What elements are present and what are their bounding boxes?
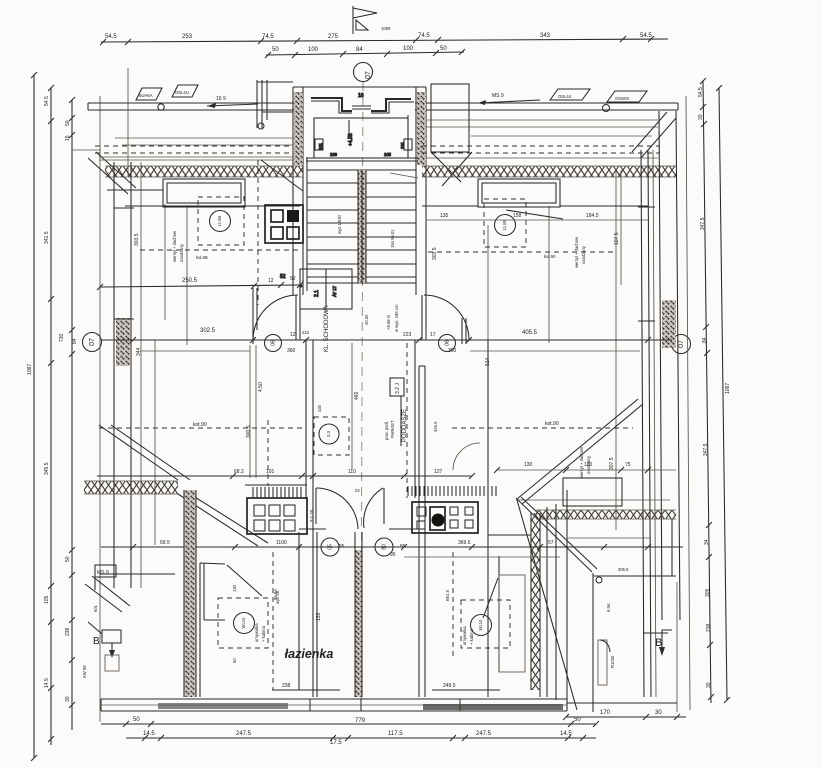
svg-text:AY 17: AY 17: [332, 285, 337, 297]
svg-text:345.5: 345.5: [44, 462, 50, 475]
svg-text:130: 130: [524, 462, 533, 468]
corridor wall stubs at doors: [299, 528, 423, 530]
bottom dimension line 1: [101, 717, 599, 727]
svg-text:1100: 1100: [276, 540, 287, 546]
chimney grid A: [245, 485, 307, 534]
tower top lines: [293, 87, 426, 158]
dim row y476: [97, 469, 475, 479]
dim 238 right: [432, 683, 500, 690]
wall leader diagonal left bath: [227, 565, 262, 596]
svg-text:105: 105: [44, 595, 50, 604]
svg-text:OSWGI: OSWGI: [615, 96, 629, 101]
svg-text:50: 50: [232, 658, 237, 663]
right window bay box: [478, 179, 560, 207]
vent annotation right room: [432, 232, 620, 268]
right dim chain inner: [698, 78, 714, 703]
svg-text:50: 50: [65, 120, 71, 126]
svg-text:84: 84: [72, 338, 78, 344]
svg-text:405.5: 405.5: [522, 330, 538, 336]
left dim chain 2: [44, 85, 54, 745]
dashed partition right: [452, 552, 454, 660]
svg-text:50: 50: [574, 717, 581, 723]
stair tower hatch right: [417, 92, 426, 165]
svg-text:54.5: 54.5: [640, 33, 652, 39]
svg-text:kot.90: kot.90: [545, 421, 559, 427]
svg-text:305: 305: [705, 588, 711, 597]
left roof slope diagonals: [99, 425, 190, 480]
svg-text:105: 105: [384, 152, 392, 157]
svg-text:umywalka: umywalka: [254, 623, 259, 642]
crosshatch band right: [422, 166, 676, 177]
right room dim texts: [426, 210, 648, 220]
svg-text:12: 12: [268, 278, 274, 284]
svg-text:WL10: WL10: [241, 617, 246, 629]
right hip diagonal to corner: [516, 497, 597, 710]
label flag right 1: [550, 89, 590, 100]
svg-text:B61.5: B61.5: [445, 589, 450, 601]
stair walk diagonal: [390, 173, 418, 178]
svg-text:30: 30: [706, 682, 712, 688]
central flue dashed box: [314, 417, 349, 455]
MS9 label bottom left: [95, 565, 116, 590]
chimney grid B: [412, 502, 478, 533]
svg-text:30: 30: [698, 114, 704, 120]
svg-text:303.5: 303.5: [432, 247, 438, 260]
svg-text:14.5: 14.5: [560, 731, 572, 737]
PODDASZE labels: [384, 378, 408, 446]
svg-text:*: *: [300, 285, 302, 291]
corner circle marker: [596, 577, 602, 583]
svg-text:341.5: 341.5: [44, 231, 50, 244]
svg-text:02: 02: [355, 488, 360, 493]
bathroom walls verticals: [299, 340, 499, 697]
svg-text:343: 343: [540, 33, 551, 39]
svg-text:300.5: 300.5: [246, 425, 252, 438]
top dashed eave lines left: [95, 146, 293, 153]
svg-text:54.5: 54.5: [44, 96, 50, 106]
svg-text:MS 9: MS 9: [492, 93, 504, 99]
stair treads: [307, 170, 416, 283]
axis circle 07 top: [354, 63, 373, 82]
bottom-right roof diagonals: [600, 633, 668, 652]
svg-text:158: 158: [513, 213, 522, 219]
svg-text:łazienka: łazienka: [285, 647, 334, 661]
stair rot labels: [337, 214, 395, 248]
crosshatch band left: [105, 166, 303, 177]
right crosshatch band: [516, 500, 676, 519]
svg-text:B5: B5: [339, 543, 345, 548]
svg-text:779: 779: [355, 718, 366, 724]
svg-text:50: 50: [65, 556, 71, 562]
corridor circle 05: [321, 538, 339, 556]
svg-text:54.5: 54.5: [105, 34, 117, 40]
svg-text:238: 238: [706, 623, 712, 632]
eave solid lines: [72, 68, 658, 176]
svg-text:R1030: R1030: [610, 655, 615, 668]
svg-text:osadzany: osadzany: [581, 245, 586, 264]
dim row right 130/75: [494, 462, 676, 473]
right chest box: [563, 478, 622, 506]
bathroom horizontals: [404, 556, 560, 558]
svg-text:302.5: 302.5: [200, 328, 216, 334]
svg-text:KL. SCHODOWA: KL. SCHODOWA: [324, 306, 330, 352]
svg-text:107.5: 107.5: [614, 232, 620, 245]
svg-text:11 B5: 11 B5: [217, 215, 222, 226]
svg-text:5UH6A: 5UH6A: [139, 93, 153, 98]
svg-text:pow. podł.: pow. podł.: [384, 421, 389, 440]
svg-text:osadzany: osadzany: [179, 243, 184, 262]
corridor door arc right: [364, 488, 384, 528]
svg-text:135: 135: [440, 213, 449, 219]
svg-text:kot.90: kot.90: [193, 422, 207, 428]
svg-text:69.5: 69.5: [160, 540, 170, 546]
svg-text:w wys. 186 cm: w wys. 186 cm: [394, 304, 399, 332]
chimney box upper-left: [265, 205, 303, 243]
top wall right: [415, 103, 678, 110]
left crosshatch band 2: [84, 481, 178, 494]
tower left side strips: [257, 80, 293, 129]
axis circle 07 right: [672, 335, 691, 354]
svg-text:133: 133: [316, 612, 322, 621]
svg-text:+8.58 m: +8.58 m: [386, 314, 391, 330]
shower rect right bath: [499, 575, 525, 672]
corridor rot annotations: [364, 304, 399, 332]
svg-text:kot.90: kot.90: [544, 254, 556, 259]
kot.80 dashed level line right: [452, 421, 633, 428]
top-left corner hip diagonals: [88, 152, 136, 194]
svg-text:84: 84: [702, 337, 708, 343]
bathroom right fixture: [445, 578, 510, 648]
svg-text:+ kabina: + kabina: [469, 628, 474, 645]
svg-text:170: 170: [600, 710, 611, 716]
stair tower verticals left: [293, 87, 307, 295]
svg-text:305.5: 305.5: [618, 567, 629, 572]
svg-text:347.5: 347.5: [703, 443, 709, 456]
svg-text:52: 52: [280, 274, 286, 280]
chimney axis extension: [267, 420, 269, 486]
hip diagonal near tower left: [261, 160, 303, 191]
stair tower verticals right: [416, 87, 426, 295]
svg-text:101: 101: [266, 469, 275, 475]
svg-text:247.5: 247.5: [236, 731, 252, 737]
svg-text:238: 238: [65, 627, 71, 636]
stair central rail: [358, 170, 366, 283]
dashed partition left: [272, 552, 274, 690]
left room dim 250.5: [97, 276, 304, 290]
left hatched wall strip: [184, 490, 196, 697]
door left label circle 06: [265, 335, 282, 352]
svg-text:275: 275: [328, 34, 339, 40]
svg-text:1087: 1087: [27, 364, 33, 375]
right outer wall: [659, 111, 680, 620]
svg-text:430: 430: [317, 404, 322, 412]
leader arrow right MS9: [478, 93, 540, 105]
corridor door arc left: [316, 488, 358, 529]
svg-text:460: 460: [354, 391, 360, 400]
svg-text:B: B: [93, 636, 100, 647]
svg-text:86.9A: 86.9A: [273, 589, 278, 600]
svg-text:54.5: 54.5: [698, 87, 704, 97]
svg-text:14.5: 14.5: [44, 678, 50, 688]
left wall window block: [116, 318, 130, 366]
chimney axis dashed: [257, 160, 259, 305]
svg-text:07: 07: [365, 71, 372, 79]
svg-text:345.5: 345.5: [433, 421, 438, 432]
kot.90 dashed level line left: [99, 422, 302, 428]
svg-text:06: 06: [444, 340, 450, 346]
door right leaf and arc: [422, 295, 469, 344]
svg-text:umywalka: umywalka: [462, 626, 467, 645]
svg-text:184.5: 184.5: [586, 213, 599, 219]
svg-text:193: 193: [330, 152, 338, 157]
svg-text:07: 07: [89, 338, 96, 346]
right dim chain outer: [716, 85, 731, 703]
svg-text:253: 253: [182, 34, 193, 40]
svg-text:05: 05: [327, 544, 333, 550]
svg-text:250.5: 250.5: [182, 278, 198, 284]
top-right corner hip diagonals: [632, 112, 676, 158]
svg-text:57: 57: [548, 540, 554, 546]
svg-text:101: 101: [318, 142, 323, 150]
svg-text:100: 100: [308, 47, 319, 53]
top dashed eave lines right: [422, 146, 660, 153]
small corner arc: [453, 443, 480, 470]
svg-text:B5: B5: [400, 543, 406, 548]
svg-text:MS 9: MS 9: [97, 570, 109, 576]
leader arrow left MS9: [158, 96, 258, 110]
tick comb left chimney: [253, 487, 301, 497]
left corner roof diagonals: [85, 574, 175, 612]
svg-text:130: 130: [232, 584, 237, 592]
svg-text:wentyl + dachow: wentyl + dachow: [172, 230, 177, 262]
left outer wall: [114, 162, 131, 588]
svg-text:50: 50: [272, 47, 279, 53]
left roof slope diagonals lower: [178, 494, 268, 546]
svg-text:223: 223: [302, 330, 310, 335]
svg-text:30: 30: [65, 696, 71, 702]
svg-text:0.3: 0.3: [326, 430, 331, 436]
svg-text:KW 99: KW 99: [82, 665, 87, 678]
svg-text:307.5: 307.5: [609, 457, 615, 470]
svg-text:kol.9B: kol.9B: [196, 255, 208, 260]
svg-text:PARKIET: PARKIET: [390, 420, 395, 438]
svg-text:34: 34: [704, 539, 710, 545]
svg-text:101: 101: [400, 141, 405, 149]
svg-text:OSL4U: OSL4U: [175, 90, 189, 95]
closet box right of tower: [431, 84, 469, 182]
svg-text:117.5: 117.5: [388, 731, 403, 737]
ceiling dash line right room: [428, 251, 617, 253]
svg-text:12: 12: [290, 332, 296, 338]
svg-text:223: 223: [403, 332, 412, 338]
svg-text:601: 601: [93, 604, 98, 612]
svg-text:WL10: WL10: [478, 619, 483, 631]
label flag left 2: [172, 85, 198, 97]
svg-text:80: 80: [381, 544, 387, 550]
door jamb extension lines: [155, 340, 256, 545]
svg-text:1089: 1089: [381, 26, 391, 31]
right hatched wall strip: [531, 513, 540, 697]
svg-text:07: 07: [678, 340, 685, 348]
svg-text:06: 06: [270, 340, 276, 346]
svg-text:84: 84: [356, 47, 363, 53]
rot texts right bottom: [606, 603, 615, 668]
svg-text:3.2 J: 3.2 J: [395, 383, 401, 394]
svg-text:344: 344: [136, 347, 142, 356]
left dim chain outer: [27, 72, 37, 761]
right wall layer verticals: [547, 490, 676, 712]
svg-text:30: 30: [655, 710, 662, 716]
central dashed axis: [361, 82, 363, 700]
ceiling dash line left room: [140, 249, 300, 251]
vent labels lower right room: [579, 446, 615, 478]
hip diagonal near tower right: [442, 152, 472, 186]
svg-text:17.5: 17.5: [330, 740, 342, 746]
section marker A top: [353, 6, 391, 34]
svg-text:*: *: [302, 280, 304, 286]
svg-text:249.5: 249.5: [443, 683, 456, 689]
svg-text:194 96.01: 194 96.01: [390, 229, 395, 248]
stair tower hatch left: [294, 92, 303, 165]
right inner wall lines: [638, 150, 655, 697]
svg-text:247.5: 247.5: [476, 731, 492, 737]
left room dashed vent rect: [198, 197, 244, 245]
svg-text:6.5K: 6.5K: [606, 603, 611, 612]
right room dashed vent rect: [484, 199, 526, 247]
top wall left: [88, 103, 301, 110]
vent circle right room: [495, 215, 516, 236]
top dimension line 2: [265, 46, 465, 58]
axis circle 07 left: [83, 333, 102, 352]
svg-text:303.5: 303.5: [134, 233, 140, 246]
landing box below stairs: [280, 269, 352, 309]
svg-text:50: 50: [440, 46, 447, 52]
door right label circle 06: [439, 335, 456, 352]
vent annotation texts left room: [134, 230, 208, 262]
right roof slope diagonals: [517, 399, 643, 504]
extra interior verticals right room: [141, 150, 656, 697]
svg-text:730: 730: [59, 333, 65, 342]
section marker B right: [655, 630, 672, 656]
svg-text:OSL44: OSL44: [558, 94, 572, 99]
bathroom left fixture: [218, 589, 280, 663]
right room top wall lines: [422, 205, 648, 207]
door jamb walls: [306, 340, 415, 498]
svg-text:16 9: 16 9: [216, 96, 226, 102]
svg-text:11 B5: 11 B5: [502, 219, 507, 230]
right wall window block: [662, 300, 676, 348]
svg-text:16: 16: [358, 93, 364, 99]
bottom dimension line 2: [126, 731, 596, 746]
vent circle left room: [210, 211, 231, 232]
svg-text:100: 100: [403, 46, 414, 52]
svg-text:1087: 1087: [725, 383, 731, 394]
svg-text:74.5: 74.5: [418, 33, 430, 39]
left bathroom wall: [200, 563, 225, 697]
svg-text:347.5: 347.5: [700, 217, 706, 230]
svg-text:74.5: 74.5: [262, 34, 274, 40]
tower inner box: [306, 93, 418, 161]
svg-text:wys 18/30: wys 18/30: [337, 214, 342, 234]
far right hatched strip: [598, 640, 607, 685]
svg-text:2.1: 2.1: [314, 290, 320, 297]
label flag left 1: [136, 88, 162, 100]
left window bay box: [163, 179, 245, 207]
svg-text:127: 127: [434, 469, 443, 475]
svg-text:40,50: 40,50: [364, 314, 369, 325]
svg-text:75: 75: [625, 462, 631, 468]
svg-text:+ kabina: + kabina: [261, 625, 266, 642]
bottom dimension line 170/30: [563, 710, 686, 720]
corridor circle 80: [375, 538, 393, 556]
left dim chain 3: [59, 97, 78, 730]
svg-text:4.50: 4.50: [258, 382, 264, 392]
svg-text:14.5: 14.5: [143, 731, 155, 737]
left room top wall lines: [107, 190, 300, 319]
section marker B left: [82, 604, 121, 678]
tick comb right chimney: [408, 486, 496, 496]
svg-text:50: 50: [133, 717, 140, 723]
inner frame verticals: [99, 96, 101, 722]
svg-text:120: 120: [584, 462, 593, 468]
svg-text:369.5: 369.5: [458, 540, 471, 546]
svg-text:17: 17: [430, 332, 436, 338]
top dimension line 1: [100, 33, 668, 45]
svg-text:15: 15: [65, 135, 71, 141]
svg-text:52: 52: [290, 276, 296, 282]
dim 238 left: [272, 683, 340, 690]
svg-text:68.2: 68.2: [234, 469, 244, 475]
svg-text:360: 360: [287, 348, 296, 354]
label flag right 2: [603, 91, 648, 112]
door left leaf and arc: [253, 288, 300, 344]
central wall strip: [355, 532, 362, 697]
svg-text:+4.58: +4.58: [348, 133, 354, 146]
svg-text:238: 238: [282, 683, 291, 689]
